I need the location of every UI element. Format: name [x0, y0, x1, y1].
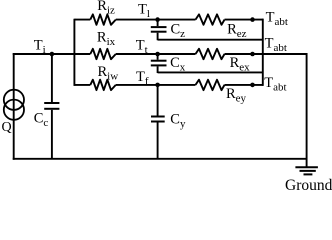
wire: return line from C_x to right bus: [158, 71, 263, 73]
svg-text:Tf: Tf: [136, 69, 149, 88]
svg-text:Tabt: Tabt: [264, 75, 286, 94]
wire: row3 lead from bus: [74, 84, 90, 86]
wire: return line from C_z to right bus: [158, 39, 263, 41]
svg-text:Cc: Cc: [34, 111, 49, 130]
svg-text:Rey: Rey: [226, 86, 247, 105]
svg-text:Rez: Rez: [227, 21, 247, 40]
svg-text:Rex: Rex: [230, 55, 251, 74]
node T_abt row2: [250, 52, 255, 57]
wire: row1 right segment to bus: [225, 19, 263, 21]
resistor R_iz: [90, 14, 116, 24]
node T_f: [155, 83, 160, 88]
node T_i: [50, 52, 55, 57]
wire: row1 lead from bus: [74, 19, 90, 21]
resistor R_iw: [90, 80, 116, 90]
svg-text:Tabt: Tabt: [266, 9, 288, 28]
svg-text:Tl: Tl: [138, 1, 150, 20]
capacitor C_c: [44, 54, 59, 159]
svg-text:Cx: Cx: [170, 55, 186, 74]
wire: main horizontal T_i net: [13, 53, 91, 55]
wire: right T_abt bus vertical: [262, 19, 264, 86]
ground: [295, 167, 318, 174]
node T_abt row3: [250, 83, 255, 88]
svg-text:Q: Q: [2, 120, 12, 135]
source Q (overlapping circles): [4, 90, 24, 110]
resistor R_ey: [196, 80, 225, 90]
capacitor C_y: [151, 85, 165, 159]
wire: row3 right segment to bus: [225, 84, 263, 86]
svg-text:Tabt: Tabt: [265, 36, 287, 55]
svg-text:Tt: Tt: [136, 38, 148, 57]
capacitor C_z: [151, 20, 167, 41]
svg-text:Rix: Rix: [97, 29, 116, 48]
wire: bottom ground rail: [13, 158, 307, 160]
svg-text:Ti: Ti: [34, 37, 46, 56]
wire: row1 middle segment through T_l: [116, 19, 196, 21]
node T_abt row1: [250, 17, 255, 22]
wire: row3 middle segment through T_f: [116, 84, 196, 86]
resistor R_ex: [196, 49, 225, 59]
svg-text:Cz: Cz: [171, 21, 186, 40]
wire: T_t lead: [116, 53, 196, 55]
node T_t: [155, 52, 160, 57]
node T_l: [155, 17, 160, 22]
svg-text:Riw: Riw: [98, 64, 119, 83]
wire: left bus vertical: [73, 19, 75, 86]
capacitor C_x: [151, 54, 167, 73]
resistor R_ix: [90, 49, 116, 59]
svg-text:Cy: Cy: [170, 112, 186, 131]
wire: T_abt middle to right corner and down to ground: [225, 54, 307, 167]
resistor R_ez: [196, 14, 225, 24]
svg-text:Ground: Ground: [285, 177, 332, 191]
wire: left vertical from T_i rail down to ground rail: [13, 53, 15, 160]
